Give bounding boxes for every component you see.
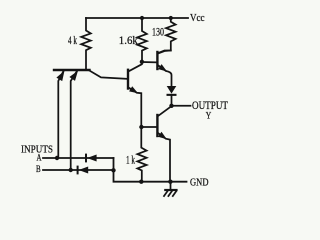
svg-text:Vcc: Vcc bbox=[190, 13, 205, 24]
svg-text:1 k: 1 k bbox=[126, 155, 135, 167]
svg-text:GND: GND bbox=[190, 177, 209, 189]
svg-text:B: B bbox=[36, 164, 41, 174]
svg-text:130: 130 bbox=[152, 26, 164, 38]
svg-text:4 k: 4 k bbox=[68, 35, 77, 47]
svg-text:1.6k: 1.6k bbox=[119, 35, 138, 47]
svg-text:Y: Y bbox=[206, 111, 212, 121]
svg-text:A: A bbox=[37, 152, 42, 162]
